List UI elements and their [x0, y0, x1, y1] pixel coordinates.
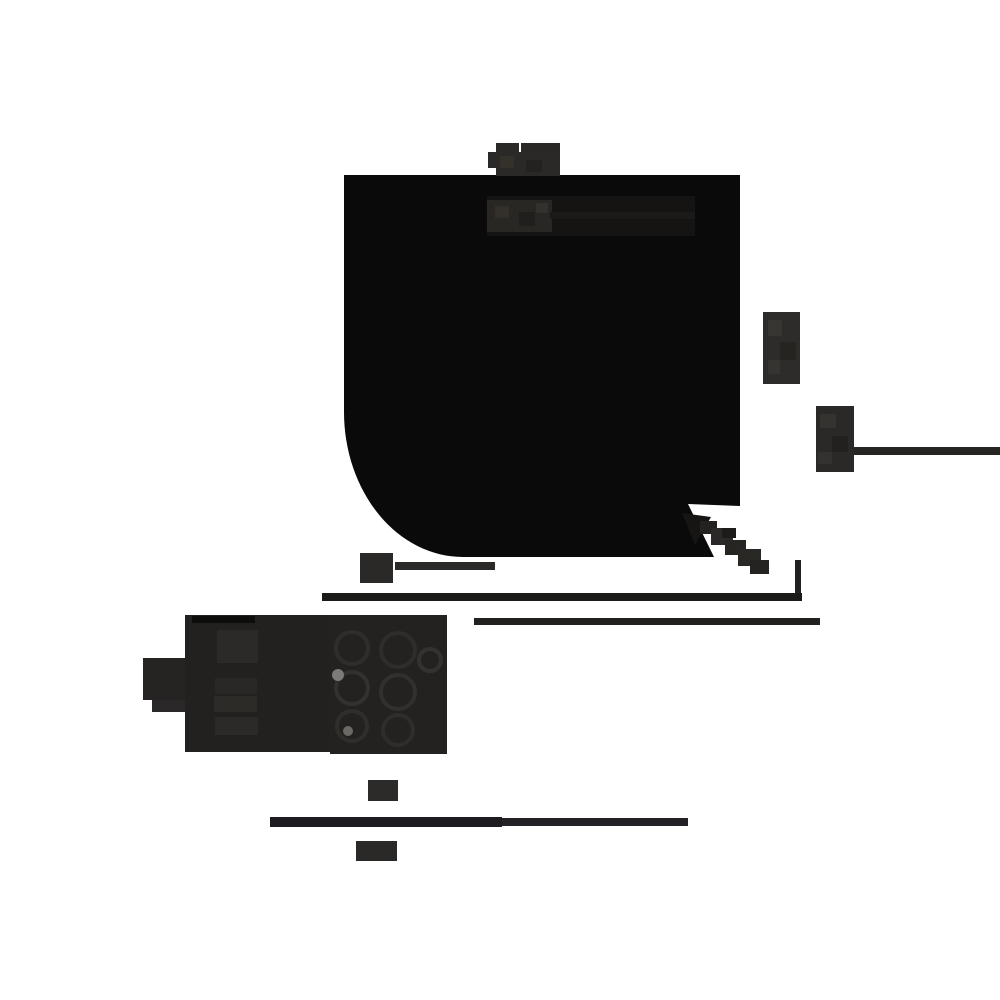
node label 6 (pixelated): [763, 312, 800, 384]
node label 2 (pixelated): [816, 406, 854, 472]
wire line 0 under blob: [474, 618, 820, 625]
wire line right of label 2: [854, 447, 1000, 455]
long wire line 2 bottom: [270, 817, 502, 827]
main body blob (solid filled component outline): [344, 175, 740, 557]
assembly left end block (pixelated): [143, 658, 188, 700]
lighter band on blob behind label 100: [487, 196, 695, 236]
vertical tick wire at blob lower right: [795, 560, 801, 597]
node label 12 (pixelated): [360, 553, 393, 583]
node label 7 (pixelated): [368, 780, 398, 801]
arrow 30 pointing to blob corner: [682, 513, 769, 574]
node label 4 (pixelated): [356, 841, 397, 861]
long wire line 1 under blob: [322, 593, 802, 601]
assembly coil block with rings (pixelated): [330, 615, 447, 754]
assembly main housing block (pixelated): [185, 615, 386, 752]
wire leader line from label 100: [550, 212, 695, 219]
node label 100 (pixelated): [487, 200, 552, 232]
short wire from label 12: [395, 562, 495, 570]
figure title FIG (pixelated label): [488, 143, 560, 176]
